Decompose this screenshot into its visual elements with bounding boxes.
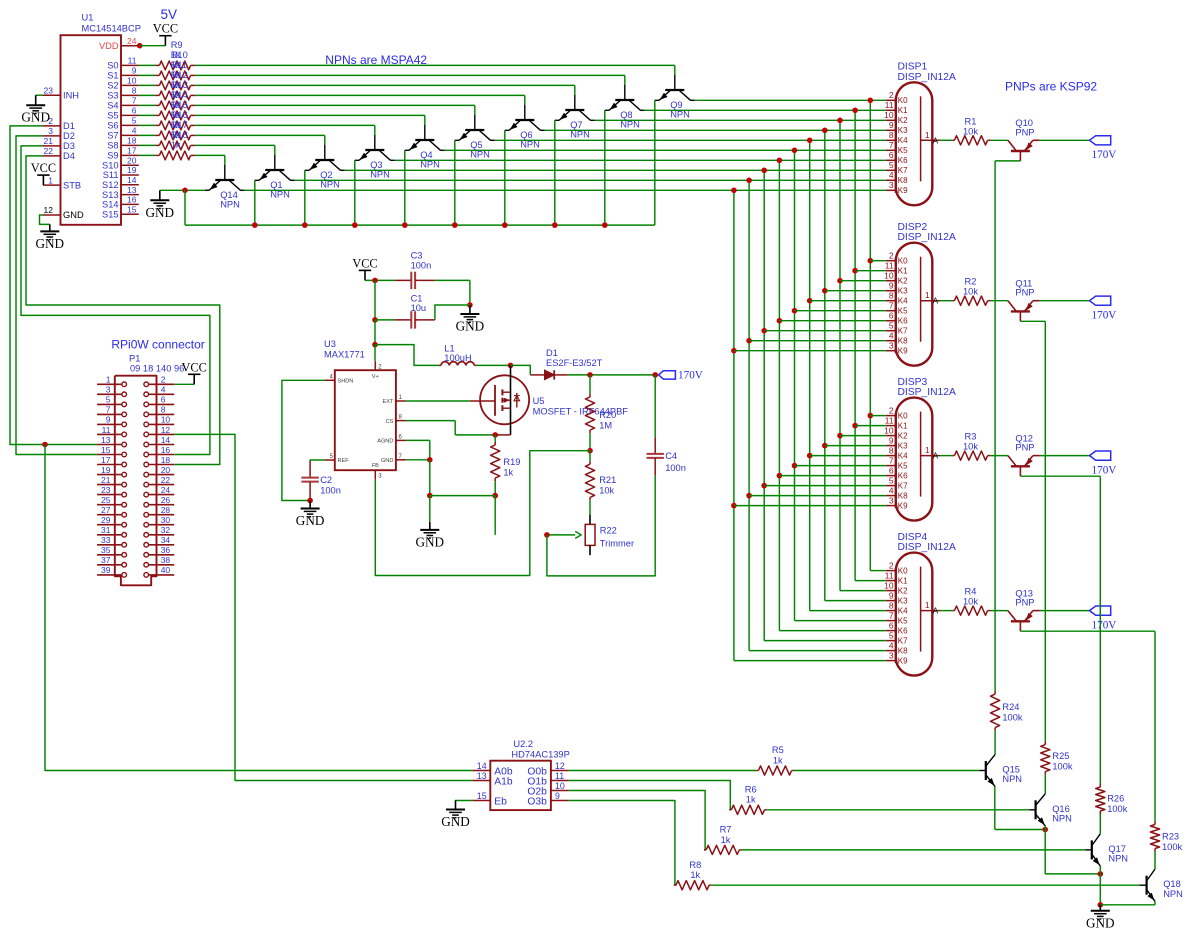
svg-text:1k: 1k (690, 870, 700, 880)
svg-text:3: 3 (889, 180, 894, 190)
svg-text:K4: K4 (898, 136, 908, 145)
svg-text:19: 19 (127, 165, 137, 175)
svg-text:A: A (933, 136, 939, 145)
svg-text:10u: 10u (411, 303, 427, 313)
svg-text:10: 10 (555, 781, 565, 791)
svg-text:15: 15 (101, 445, 111, 455)
svg-text:R17: R17 (171, 120, 188, 130)
svg-text:GND: GND (1086, 915, 1115, 930)
svg-text:11: 11 (555, 771, 564, 781)
svg-text:R13: R13 (171, 80, 188, 90)
svg-text:4: 4 (889, 640, 894, 650)
svg-text:NPN: NPN (1052, 813, 1072, 823)
svg-text:Q4: Q4 (420, 150, 432, 160)
svg-text:15: 15 (477, 791, 487, 801)
svg-text:K9: K9 (898, 347, 908, 356)
svg-text:19: 19 (101, 465, 111, 475)
svg-text:Q15: Q15 (1002, 765, 1020, 775)
svg-text:S0: S0 (107, 61, 118, 71)
svg-text:100uH: 100uH (444, 353, 471, 363)
svg-text:S6: S6 (107, 121, 118, 131)
svg-text:Q18: Q18 (1163, 879, 1181, 889)
svg-text:13: 13 (101, 435, 111, 445)
svg-text:K8: K8 (898, 492, 908, 501)
svg-text:18: 18 (127, 136, 137, 146)
svg-text:R4: R4 (965, 587, 977, 597)
svg-text:11: 11 (102, 425, 111, 435)
svg-text:A: A (933, 452, 939, 461)
svg-text:1: 1 (106, 375, 111, 385)
svg-text:D3: D3 (63, 141, 75, 151)
svg-text:R5: R5 (772, 745, 784, 755)
svg-text:5: 5 (106, 395, 111, 405)
svg-text:K8: K8 (898, 647, 908, 656)
svg-text:37: 37 (101, 555, 111, 565)
svg-text:20: 20 (161, 465, 171, 475)
svg-text:1: 1 (925, 600, 930, 610)
svg-text:MAX1771: MAX1771 (324, 349, 365, 359)
svg-text:3: 3 (889, 341, 894, 351)
svg-text:10k: 10k (963, 126, 978, 136)
svg-text:2: 2 (889, 251, 894, 261)
svg-text:R14: R14 (171, 90, 188, 100)
svg-text:VCC: VCC (182, 360, 207, 374)
svg-text:23: 23 (101, 485, 111, 495)
svg-text:3: 3 (889, 650, 894, 660)
svg-text:Q14: Q14 (220, 190, 238, 200)
svg-text:K0: K0 (898, 257, 908, 266)
svg-text:1k: 1k (746, 795, 756, 805)
svg-text:S4: S4 (107, 101, 118, 111)
svg-text:100n: 100n (665, 463, 686, 473)
svg-text:U5: U5 (533, 396, 545, 406)
svg-text:GND: GND (63, 210, 84, 220)
svg-text:K1: K1 (898, 106, 908, 115)
svg-text:9: 9 (132, 66, 137, 76)
svg-text:PNPs are KSP92: PNPs are KSP92 (1005, 80, 1097, 94)
svg-text:NPN: NPN (620, 120, 640, 130)
svg-text:R26: R26 (1107, 794, 1124, 804)
svg-text:11: 11 (885, 100, 894, 110)
svg-text:S9: S9 (107, 151, 118, 161)
svg-text:R24: R24 (1002, 702, 1019, 712)
svg-text:K5: K5 (898, 307, 908, 316)
svg-text:2: 2 (889, 405, 894, 415)
svg-text:26: 26 (161, 495, 171, 505)
svg-text:K4: K4 (898, 297, 908, 306)
svg-text:K3: K3 (898, 597, 908, 606)
svg-text:S8: S8 (107, 141, 118, 151)
svg-text:8: 8 (889, 130, 894, 140)
svg-text:S10: S10 (102, 160, 119, 170)
svg-text:13: 13 (127, 185, 137, 195)
svg-text:8: 8 (889, 600, 894, 610)
svg-text:K5: K5 (898, 462, 908, 471)
svg-text:FB: FB (372, 463, 379, 469)
svg-text:8: 8 (161, 405, 166, 415)
svg-text:Q9: Q9 (670, 100, 682, 110)
svg-text:Q8: Q8 (620, 110, 632, 120)
svg-text:R25: R25 (1052, 751, 1069, 761)
svg-text:D4: D4 (63, 151, 75, 161)
svg-text:GND: GND (21, 110, 50, 125)
svg-text:V+: V+ (372, 374, 379, 380)
svg-text:K9: K9 (898, 657, 908, 666)
svg-text:100n: 100n (320, 486, 341, 496)
svg-text:11: 11 (885, 415, 894, 425)
svg-text:1: 1 (925, 290, 930, 300)
svg-text:NPN: NPN (270, 190, 290, 200)
svg-text:K5: K5 (898, 617, 908, 626)
svg-text:R19: R19 (503, 457, 520, 467)
svg-text:100n: 100n (411, 260, 432, 270)
svg-text:6: 6 (161, 395, 166, 405)
svg-text:DISP_IN12A: DISP_IN12A (898, 387, 957, 398)
svg-text:Q5: Q5 (470, 140, 482, 150)
svg-text:5: 5 (889, 475, 894, 485)
svg-text:K2: K2 (898, 587, 908, 596)
svg-text:10k: 10k (599, 485, 614, 495)
svg-text:Q17: Q17 (1108, 844, 1126, 854)
svg-text:7: 7 (106, 405, 111, 415)
svg-text:39: 39 (101, 565, 111, 575)
svg-text:NPN: NPN (1108, 854, 1128, 864)
svg-text:33: 33 (101, 535, 111, 545)
svg-text:11: 11 (128, 56, 137, 66)
svg-text:VCC: VCC (352, 256, 377, 270)
svg-text:S3: S3 (107, 91, 118, 101)
svg-text:8: 8 (889, 445, 894, 455)
svg-text:R6: R6 (745, 785, 757, 795)
svg-text:S11: S11 (103, 170, 119, 180)
svg-text:K7: K7 (898, 637, 908, 646)
svg-text:4: 4 (889, 331, 894, 341)
svg-text:S15: S15 (102, 209, 119, 219)
svg-text:K9: K9 (898, 186, 908, 195)
svg-text:K1: K1 (898, 577, 908, 586)
svg-text:2: 2 (889, 90, 894, 100)
svg-text:10: 10 (884, 271, 894, 281)
svg-text:21: 21 (101, 475, 111, 485)
svg-text:170V: 170V (1092, 464, 1117, 476)
svg-text:9: 9 (106, 415, 111, 425)
svg-text:HD74AC139P: HD74AC139P (511, 749, 569, 759)
svg-text:R9: R9 (171, 40, 183, 50)
svg-text:S5: S5 (107, 111, 118, 121)
svg-text:7: 7 (889, 140, 894, 150)
svg-text:ES2F-E3/52T: ES2F-E3/52T (546, 358, 603, 368)
svg-text:12: 12 (161, 425, 171, 435)
svg-text:R10: R10 (171, 50, 188, 60)
svg-text:25: 25 (101, 495, 111, 505)
svg-text:3: 3 (889, 495, 894, 505)
svg-text:10k: 10k (963, 442, 978, 452)
svg-text:K7: K7 (898, 327, 908, 336)
svg-text:24: 24 (161, 485, 171, 495)
svg-text:K6: K6 (898, 156, 908, 165)
svg-text:Eb: Eb (494, 797, 507, 808)
svg-text:14: 14 (477, 761, 487, 771)
svg-text:6: 6 (889, 150, 894, 160)
svg-text:R21: R21 (599, 475, 616, 485)
svg-text:7: 7 (132, 96, 137, 106)
svg-text:12: 12 (555, 761, 565, 771)
svg-text:K3: K3 (898, 442, 908, 451)
svg-text:11: 11 (885, 261, 894, 271)
svg-text:NPN: NPN (420, 160, 440, 170)
svg-text:K3: K3 (898, 287, 908, 296)
svg-text:GND: GND (416, 534, 445, 549)
svg-text:18: 18 (161, 455, 171, 465)
svg-text:NPN: NPN (1163, 889, 1183, 899)
svg-text:Q7: Q7 (570, 120, 582, 130)
svg-text:9: 9 (889, 435, 894, 445)
svg-text:Q6: Q6 (520, 130, 532, 140)
svg-text:DISP_IN12A: DISP_IN12A (898, 232, 957, 243)
svg-text:4: 4 (132, 126, 137, 136)
svg-text:6: 6 (889, 311, 894, 321)
svg-text:K6: K6 (898, 317, 908, 326)
svg-text:VDD: VDD (99, 41, 119, 51)
svg-text:Q1: Q1 (270, 180, 282, 190)
svg-text:K2: K2 (898, 432, 908, 441)
svg-text:17: 17 (127, 146, 137, 156)
svg-text:Q2: Q2 (320, 170, 332, 180)
svg-text:8: 8 (132, 86, 137, 96)
svg-text:PNP: PNP (1015, 598, 1034, 608)
svg-text:4: 4 (889, 170, 894, 180)
svg-text:R12: R12 (171, 70, 188, 80)
svg-text:VCC: VCC (153, 22, 178, 36)
svg-text:EXT: EXT (383, 399, 394, 405)
svg-text:Trimmer: Trimmer (600, 538, 634, 548)
svg-text:R1: R1 (965, 116, 977, 126)
svg-text:K7: K7 (898, 166, 908, 175)
svg-text:NPN: NPN (220, 200, 240, 210)
svg-text:C3: C3 (411, 251, 423, 261)
svg-text:4: 4 (889, 485, 894, 495)
svg-text:5: 5 (132, 116, 137, 126)
svg-text:GND: GND (36, 236, 65, 251)
svg-text:VCC: VCC (31, 161, 56, 175)
svg-text:20: 20 (127, 155, 137, 165)
svg-text:170V: 170V (1092, 149, 1117, 161)
svg-text:K8: K8 (898, 337, 908, 346)
svg-text:27: 27 (101, 505, 111, 515)
svg-text:2: 2 (889, 560, 894, 570)
svg-text:10k: 10k (963, 287, 978, 297)
svg-text:K2: K2 (898, 277, 908, 286)
svg-text:R3: R3 (965, 432, 977, 442)
svg-text:R2: R2 (965, 277, 977, 287)
svg-text:170V: 170V (1092, 309, 1117, 321)
svg-text:C1: C1 (411, 293, 423, 303)
svg-text:K0: K0 (898, 96, 908, 105)
svg-text:7: 7 (889, 301, 894, 311)
svg-text:11: 11 (885, 570, 894, 580)
svg-text:K6: K6 (898, 472, 908, 481)
svg-text:DISP_IN12A: DISP_IN12A (898, 72, 957, 83)
svg-text:10: 10 (884, 425, 894, 435)
svg-text:16: 16 (161, 445, 171, 455)
svg-text:C2: C2 (320, 475, 332, 485)
svg-text:1: 1 (48, 175, 53, 185)
svg-text:K4: K4 (898, 452, 908, 461)
svg-text:32: 32 (161, 525, 171, 535)
svg-text:1: 1 (925, 130, 930, 140)
svg-text:C4: C4 (665, 451, 677, 461)
svg-text:A: A (933, 297, 939, 306)
svg-text:10k: 10k (963, 597, 978, 607)
svg-text:8: 8 (889, 291, 894, 301)
svg-text:PNP: PNP (1015, 288, 1034, 298)
svg-text:170V: 170V (678, 370, 703, 382)
svg-text:D2: D2 (63, 131, 75, 141)
svg-text:NPN: NPN (470, 150, 490, 160)
svg-text:GND: GND (456, 319, 485, 334)
svg-text:K1: K1 (898, 422, 908, 431)
svg-text:Q16: Q16 (1052, 804, 1070, 814)
svg-text:5: 5 (889, 321, 894, 331)
svg-text:30: 30 (161, 515, 171, 525)
svg-text:7: 7 (889, 455, 894, 465)
svg-text:GND: GND (146, 205, 175, 220)
svg-text:K3: K3 (898, 126, 908, 135)
svg-text:R8: R8 (689, 860, 701, 870)
svg-text:K9: K9 (898, 502, 908, 511)
svg-text:R20: R20 (599, 410, 616, 420)
svg-text:Q3: Q3 (370, 160, 382, 170)
svg-text:K8: K8 (898, 176, 908, 185)
svg-text:5: 5 (889, 160, 894, 170)
svg-text:4: 4 (161, 385, 166, 395)
svg-text:10: 10 (127, 76, 137, 86)
svg-text:24: 24 (127, 36, 137, 46)
svg-text:31: 31 (101, 525, 111, 535)
svg-text:P1: P1 (129, 353, 140, 363)
svg-text:22: 22 (161, 475, 171, 485)
svg-text:9: 9 (555, 791, 560, 801)
svg-text:R22: R22 (600, 526, 617, 536)
svg-text:AGND: AGND (377, 439, 393, 445)
svg-text:GND: GND (296, 513, 325, 528)
svg-text:09 18 140 96: 09 18 140 96 (130, 363, 184, 373)
svg-text:170V: 170V (1092, 619, 1117, 631)
svg-text:2: 2 (161, 375, 166, 385)
svg-text:L1: L1 (444, 343, 454, 353)
svg-text:U1: U1 (82, 13, 94, 23)
svg-text:35: 35 (101, 545, 111, 555)
svg-text:21: 21 (44, 136, 54, 146)
svg-text:S14: S14 (102, 200, 119, 210)
svg-text:5: 5 (889, 630, 894, 640)
svg-text:D1: D1 (546, 348, 558, 358)
svg-text:R23: R23 (1162, 832, 1179, 842)
svg-text:6: 6 (889, 620, 894, 630)
svg-text:K6: K6 (898, 627, 908, 636)
svg-text:100k: 100k (1052, 761, 1073, 771)
svg-text:D1: D1 (63, 121, 75, 131)
svg-text:9: 9 (889, 590, 894, 600)
svg-text:K4: K4 (898, 607, 908, 616)
svg-text:1k: 1k (503, 467, 513, 477)
svg-text:1k: 1k (721, 835, 731, 845)
svg-text:14: 14 (161, 435, 171, 445)
svg-text:A1b: A1b (494, 777, 513, 788)
svg-text:S1: S1 (107, 71, 118, 81)
svg-text:100k: 100k (1107, 804, 1128, 814)
svg-text:34: 34 (161, 535, 171, 545)
svg-text:3: 3 (106, 385, 111, 395)
svg-text:K0: K0 (898, 567, 908, 576)
svg-text:16: 16 (127, 195, 137, 205)
svg-text:6: 6 (889, 465, 894, 475)
svg-text:1k: 1k (171, 140, 181, 150)
svg-text:14: 14 (127, 175, 137, 185)
svg-text:1: 1 (925, 445, 930, 455)
svg-text:S7: S7 (107, 131, 118, 141)
svg-text:K7: K7 (898, 482, 908, 491)
svg-text:12: 12 (44, 205, 54, 215)
svg-text:1k: 1k (773, 755, 783, 765)
svg-text:NPN: NPN (320, 180, 340, 190)
svg-text:100k: 100k (1002, 712, 1023, 722)
svg-text:K5: K5 (898, 146, 908, 155)
svg-text:NPN: NPN (570, 130, 590, 140)
svg-text:3: 3 (48, 126, 53, 136)
svg-text:10: 10 (161, 415, 171, 425)
svg-text:NPNs are MSPA42: NPNs are MSPA42 (325, 53, 427, 67)
svg-text:S12: S12 (102, 180, 119, 190)
svg-text:38: 38 (161, 555, 171, 565)
svg-text:13: 13 (477, 771, 487, 781)
svg-text:1M: 1M (599, 420, 612, 430)
svg-text:5V: 5V (161, 7, 178, 22)
svg-text:CS: CS (386, 419, 394, 425)
svg-text:100k: 100k (1162, 842, 1183, 852)
svg-text:10: 10 (884, 110, 894, 120)
svg-text:15: 15 (127, 204, 137, 214)
svg-text:NPN: NPN (1002, 774, 1022, 784)
svg-text:S13: S13 (102, 190, 119, 200)
svg-text:PNP: PNP (1015, 127, 1034, 137)
svg-text:PNP: PNP (1015, 443, 1034, 453)
svg-text:O3b: O3b (527, 797, 547, 808)
svg-text:S2: S2 (107, 81, 118, 91)
svg-text:K2: K2 (898, 116, 908, 125)
svg-text:R15: R15 (171, 100, 188, 110)
svg-text:GND: GND (441, 814, 470, 829)
svg-text:RPi0W connector: RPi0W connector (111, 338, 204, 352)
svg-text:9: 9 (889, 281, 894, 291)
svg-text:REF: REF (338, 458, 350, 464)
svg-text:U3: U3 (324, 339, 336, 349)
svg-text:U2.2: U2.2 (513, 739, 533, 749)
svg-text:NPN: NPN (520, 140, 540, 150)
svg-text:29: 29 (101, 515, 111, 525)
svg-text:R16: R16 (171, 110, 188, 120)
svg-text:K0: K0 (898, 412, 908, 421)
svg-text:A: A (933, 607, 939, 616)
svg-text:28: 28 (161, 505, 171, 515)
svg-text:R18: R18 (171, 130, 188, 140)
svg-text:SHDN: SHDN (338, 379, 354, 385)
svg-text:GND: GND (381, 458, 393, 464)
svg-text:36: 36 (161, 545, 171, 555)
svg-text:R11: R11 (171, 60, 187, 70)
svg-text:10: 10 (884, 580, 894, 590)
svg-text:R7: R7 (720, 825, 732, 835)
